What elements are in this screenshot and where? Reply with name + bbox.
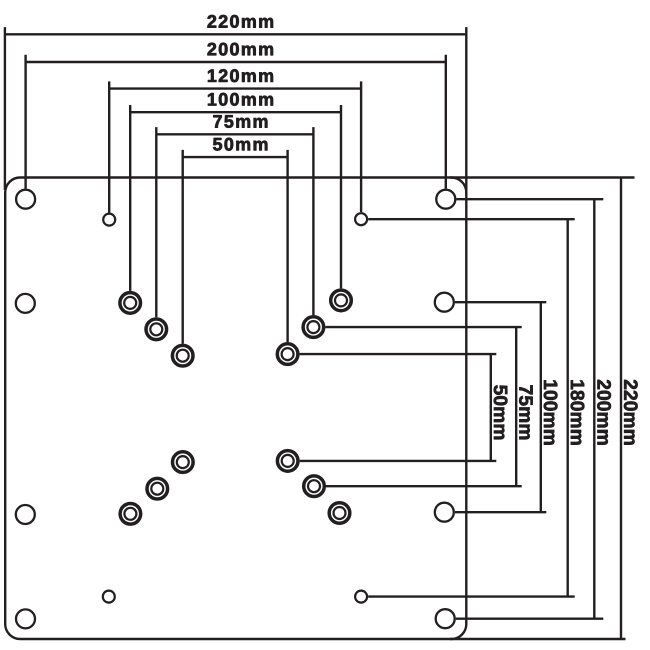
wire: 75mm right tick [312,127,314,315]
hole: corner bottom-left [16,609,35,628]
dimension line 75mm right vertical [515,327,517,486]
dimension line 50mm top [183,156,288,158]
dimension line 200mm right vertical [593,199,595,619]
grommet hole: 75mm bottom-right [304,476,325,497]
label 120mm top [208,69,273,82]
dimension line 220mm right vertical [620,178,622,640]
hole: corner bottom-right [436,609,455,628]
grommet hole: 50mm top-left [172,345,193,366]
label 200mm right [597,380,611,445]
hole: small top-right [355,213,367,225]
hole: mid-left upper [16,294,35,313]
wire: 180mm top leader [368,218,575,220]
wire: 100mm bottom leader [455,511,546,513]
grommet hole: 50mm bottom-left [173,452,194,473]
hole: mid-right upper [435,293,454,312]
grommet hole: 75mm top-left [146,319,167,340]
grommet hole: 100mm bottom-left [120,504,141,525]
grommet hole: 50mm bottom-right [277,451,298,472]
dimension line 200mm top [26,61,446,63]
wire: 50mm top leader [300,353,497,355]
wire: 120mm left tick [108,81,110,212]
label 75mm right [519,385,532,439]
label 50mm right [494,385,508,439]
dimension line 180mm right vertical [567,219,569,596]
label 100mm top [208,93,273,106]
dimension line 120mm top [109,87,361,89]
grommet hole: 50mm top-right [277,344,298,365]
label 200mm top [207,43,273,56]
grommet hole: 75mm bottom-left [147,478,168,499]
hole: small top-left [103,214,115,226]
hole: small bottom-right [355,591,367,603]
wire: 50mm bottom leader [300,460,497,462]
label 220mm top [207,15,273,28]
hole: corner top-left [16,190,35,209]
wire: left plate edge extended up as 220mm left tick [4,27,6,190]
wire: 180mm bottom leader [368,595,575,597]
wire: 100mm top leader [455,301,546,303]
hole: corner top-right [436,190,455,209]
dimension line 220mm top [5,33,466,35]
dimension line 100mm top [130,111,341,113]
dimension line 75mm top [156,133,313,135]
wire: bottom plate edge extended right to 220mm vertical [450,638,626,640]
wire: top plate edge extended right to 220mm vertical [450,176,635,178]
label 100mm right [544,380,558,444]
dimension line 50mm right vertical [490,354,492,461]
label 180mm right [571,380,585,444]
hole: mid-left lower [16,505,35,524]
label 75mm top [213,115,267,128]
grommet hole: 100mm bottom-right [329,503,350,524]
label 220mm right [624,380,638,445]
label 50mm top [213,138,267,151]
wire: 100mm left tick [129,105,131,291]
wire: 200mm right tick [445,55,447,189]
wire: 100mm right tick [340,105,342,288]
grommet hole: 75mm top-right [303,317,324,338]
wire: 50mm left tick [181,150,183,344]
wire: 200mm bottom leader [456,618,604,620]
wire: 75mm top leader [325,326,521,328]
grommet hole: 100mm top-left [120,293,141,314]
wire: right plate edge extended up as 220mm right tick [465,27,467,193]
wire: 200mm left tick [24,55,26,189]
hole: mid-right lower [435,503,454,522]
dimension line 100mm right vertical [540,302,542,512]
wire: 50mm right tick [286,150,288,342]
wire: 200mm top leader [456,198,603,200]
plate outline [5,178,466,640]
hole: small bottom-left [103,591,115,603]
wire: 75mm left tick [155,127,157,317]
grommet hole: 100mm top-right [331,290,352,311]
wire: 120mm right tick [360,81,362,212]
wire: 75mm bottom leader [326,485,522,487]
